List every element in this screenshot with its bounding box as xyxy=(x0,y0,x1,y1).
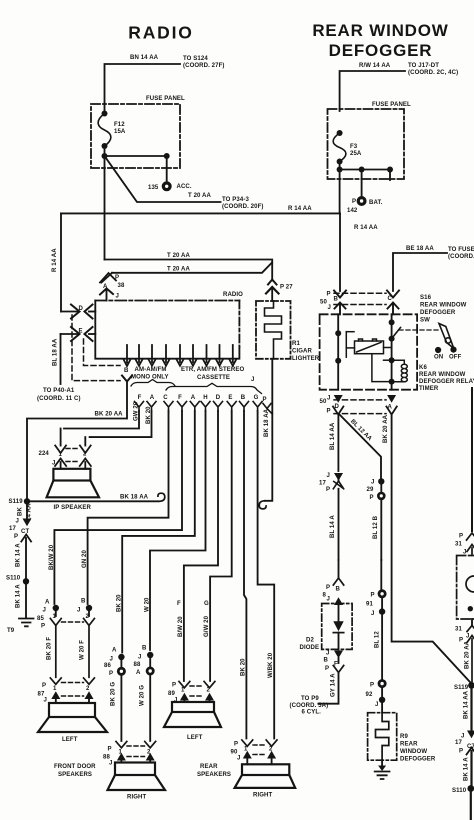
svg-text:J: J xyxy=(43,608,46,614)
svg-text:DEFOGGER RELAY: DEFOGGER RELAY xyxy=(419,379,474,385)
svg-text:J: J xyxy=(327,597,330,603)
svg-text:DEFOGGER: DEFOGGER xyxy=(400,757,436,763)
svg-text:15A: 15A xyxy=(114,129,126,135)
svg-text:OFF: OFF xyxy=(449,355,462,361)
svg-text:FRONT DOOR: FRONT DOOR xyxy=(54,764,96,770)
svg-text:P: P xyxy=(108,747,112,753)
svg-text:REAR WINDOW: REAR WINDOW xyxy=(419,372,466,378)
svg-text:31: 31 xyxy=(455,542,462,548)
svg-text:W 20 G: W 20 G xyxy=(140,685,146,706)
svg-text:17: 17 xyxy=(455,740,462,746)
svg-text:R 14 AA: R 14 AA xyxy=(52,248,58,272)
svg-text:BK 18 AA: BK 18 AA xyxy=(120,495,149,501)
svg-text:(COORD. 11 C): (COORD. 11 C) xyxy=(37,396,81,402)
svg-text:P: P xyxy=(371,593,375,599)
svg-text:DEFOGGER: DEFOGGER xyxy=(329,41,433,60)
svg-text:D: D xyxy=(79,306,84,312)
svg-text:P: P xyxy=(42,683,46,689)
svg-text:BL 14 A: BL 14 A xyxy=(330,515,336,538)
svg-text:31: 31 xyxy=(455,627,462,633)
svg-text:(COORD. 20F): (COORD. 20F) xyxy=(222,204,264,210)
svg-text:ON: ON xyxy=(434,355,443,361)
svg-text:91: 91 xyxy=(366,602,373,608)
svg-text:LEFT: LEFT xyxy=(62,737,78,743)
svg-text:BK 20 AA: BK 20 AA xyxy=(383,414,389,443)
svg-text:J: J xyxy=(77,608,80,614)
svg-text:BK/W 20: BK/W 20 xyxy=(49,544,55,570)
svg-text:BK 18 AA: BK 18 AA xyxy=(264,408,270,437)
svg-text:S119: S119 xyxy=(9,499,24,505)
svg-text:RIGHT: RIGHT xyxy=(127,795,147,801)
svg-text:1: 1 xyxy=(53,686,57,692)
svg-text:J: J xyxy=(327,396,330,402)
svg-text:TO FUSE: TO FUSE xyxy=(448,247,474,253)
svg-text:17: 17 xyxy=(319,481,326,487)
svg-text:REAR: REAR xyxy=(400,742,418,748)
svg-text:A: A xyxy=(112,648,117,654)
svg-text:REAR WINDOW: REAR WINDOW xyxy=(312,21,448,40)
svg-text:J: J xyxy=(16,519,19,525)
svg-text:50: 50 xyxy=(320,399,327,405)
svg-text:GN 20: GN 20 xyxy=(82,549,88,568)
svg-text:E: E xyxy=(228,395,232,401)
svg-text:B: B xyxy=(142,646,147,652)
svg-text:MONO ONLY: MONO ONLY xyxy=(131,375,169,381)
svg-text:P: P xyxy=(459,749,463,755)
svg-text:50: 50 xyxy=(320,300,327,306)
svg-text:B: B xyxy=(124,368,129,374)
svg-text:RADIO: RADIO xyxy=(223,292,243,298)
svg-text:J: J xyxy=(109,761,112,767)
svg-text:D2: D2 xyxy=(306,638,314,644)
svg-text:J: J xyxy=(44,698,47,704)
svg-text:B: B xyxy=(336,587,341,593)
svg-text:TIMER: TIMER xyxy=(419,386,439,392)
svg-text:P: P xyxy=(459,534,463,540)
svg-text:J: J xyxy=(116,294,119,300)
svg-text:GW 20: GW 20 xyxy=(134,401,140,421)
svg-text:(COORD. 2C, 4C): (COORD. 2C, 4C) xyxy=(408,70,458,76)
svg-text:P: P xyxy=(352,199,356,205)
svg-text:B: B xyxy=(334,297,339,303)
svg-text:IP SPEAKER: IP SPEAKER xyxy=(54,505,92,511)
svg-text:P 27: P 27 xyxy=(280,285,293,291)
svg-text:89: 89 xyxy=(168,691,175,697)
svg-text:R1: R1 xyxy=(292,341,300,347)
svg-text:B: B xyxy=(81,599,86,605)
svg-text:W/BK 20: W/BK 20 xyxy=(268,652,274,678)
svg-text:RADIO: RADIO xyxy=(128,23,193,43)
svg-text:P: P xyxy=(234,742,238,748)
svg-text:142: 142 xyxy=(347,208,358,214)
svg-text:J: J xyxy=(326,651,329,657)
svg-text:224: 224 xyxy=(39,451,50,457)
svg-text:6 CYL.: 6 CYL. xyxy=(302,710,322,716)
svg-text:J: J xyxy=(138,655,141,661)
svg-text:H: H xyxy=(203,395,207,401)
svg-text:F: F xyxy=(177,601,181,607)
svg-text:BK 20 G: BK 20 G xyxy=(111,682,117,706)
svg-text:(COORD. 27F): (COORD. 27F) xyxy=(183,63,225,69)
svg-text:G: G xyxy=(204,601,209,607)
svg-text:BL 12: BL 12 xyxy=(375,631,381,648)
svg-text:BK: BK xyxy=(18,507,24,516)
svg-text:17: 17 xyxy=(9,526,16,532)
svg-text:P: P xyxy=(326,487,330,493)
svg-text:P: P xyxy=(327,292,331,298)
svg-text:LIGHTER: LIGHTER xyxy=(292,356,320,362)
svg-text:ACC.: ACC. xyxy=(177,184,192,190)
svg-text:T 20 AA: T 20 AA xyxy=(167,267,191,273)
svg-text:RIGHT: RIGHT xyxy=(253,793,273,799)
svg-text:J: J xyxy=(327,473,330,479)
svg-text:P: P xyxy=(325,666,329,672)
svg-text:R 14 AA: R 14 AA xyxy=(288,206,312,212)
svg-text:P: P xyxy=(459,638,463,644)
svg-text:BK 20: BK 20 xyxy=(241,658,247,676)
svg-text:TO P9: TO P9 xyxy=(301,696,319,702)
svg-text:2: 2 xyxy=(269,747,273,753)
svg-text:SPEAKERS: SPEAKERS xyxy=(58,772,92,778)
svg-text:BL 12 B: BL 12 B xyxy=(373,515,379,539)
svg-text:2: 2 xyxy=(86,686,90,692)
svg-text:P: P xyxy=(327,409,331,415)
svg-text:J: J xyxy=(110,657,113,663)
svg-text:J: J xyxy=(237,756,240,762)
svg-text:DEFOGGER: DEFOGGER xyxy=(420,310,456,316)
svg-text:BK 14 A: BK 14 A xyxy=(16,543,22,567)
svg-text:T 20 AA: T 20 AA xyxy=(188,193,212,199)
svg-text:29: 29 xyxy=(367,487,374,493)
svg-text:BK 20: BK 20 xyxy=(146,406,152,424)
svg-text:T 20 AA: T 20 AA xyxy=(167,253,191,259)
svg-text:ETR, AM/FM STEREO: ETR, AM/FM STEREO xyxy=(181,367,244,373)
svg-text:BK 20: BK 20 xyxy=(117,594,123,612)
svg-text:P: P xyxy=(109,671,113,677)
svg-text:REAR: REAR xyxy=(200,764,218,770)
svg-text:FUSE PANEL: FUSE PANEL xyxy=(372,102,411,108)
svg-text:38: 38 xyxy=(118,283,125,289)
svg-text:TO S124: TO S124 xyxy=(183,56,208,62)
svg-text:BK 20 F: BK 20 F xyxy=(47,637,53,660)
svg-text:A: A xyxy=(150,395,155,401)
svg-text:S110: S110 xyxy=(452,788,467,794)
svg-text:BK 20 AA: BK 20 AA xyxy=(95,412,124,418)
svg-text:85: 85 xyxy=(37,616,44,622)
svg-text:R/W 14 AA: R/W 14 AA xyxy=(359,63,391,69)
svg-text:BAT.: BAT. xyxy=(369,200,383,206)
svg-text:TO P34-3: TO P34-3 xyxy=(222,197,249,203)
svg-text:G: G xyxy=(254,395,259,401)
svg-text:FUSE PANEL: FUSE PANEL xyxy=(146,96,185,102)
svg-text:B: B xyxy=(241,395,246,401)
svg-text:A: A xyxy=(136,670,141,676)
svg-text:AM-AM/FM: AM-AM/FM xyxy=(135,367,167,373)
svg-text:S119: S119 xyxy=(454,685,469,691)
svg-text:CIGAR: CIGAR xyxy=(292,349,313,355)
svg-text:J: J xyxy=(371,611,374,617)
svg-text:P: P xyxy=(326,585,330,591)
svg-text:T9: T9 xyxy=(7,628,15,634)
svg-text:135: 135 xyxy=(148,185,159,191)
svg-text:W 20 F: W 20 F xyxy=(80,640,86,660)
svg-text:BK 14 AA: BK 14 AA xyxy=(464,690,470,719)
svg-text:A: A xyxy=(191,395,196,401)
svg-text:J: J xyxy=(371,480,374,486)
svg-text:J: J xyxy=(461,734,464,740)
svg-text:TO J17-DT: TO J17-DT xyxy=(408,63,439,69)
svg-text:88: 88 xyxy=(134,662,141,668)
svg-text:LEFT: LEFT xyxy=(187,735,203,741)
svg-text:P: P xyxy=(14,534,18,540)
svg-text:B: B xyxy=(324,658,329,664)
svg-text:S16: S16 xyxy=(420,295,432,301)
svg-text:DIODE: DIODE xyxy=(300,645,320,651)
svg-text:GY 14 A: GY 14 A xyxy=(331,673,337,697)
svg-text:J: J xyxy=(375,702,378,708)
svg-text:92: 92 xyxy=(366,692,373,698)
svg-text:F: F xyxy=(138,395,142,401)
svg-text:(COORD. 5A): (COORD. 5A) xyxy=(290,703,329,709)
svg-text:WINDOW: WINDOW xyxy=(400,749,427,755)
svg-text:BK 14 A: BK 14 A xyxy=(464,757,470,781)
svg-text:R 14 AA: R 14 AA xyxy=(354,225,378,231)
svg-text:1: 1 xyxy=(181,688,185,694)
svg-text:S110: S110 xyxy=(6,576,21,582)
svg-text:P: P xyxy=(41,624,45,630)
svg-text:A: A xyxy=(45,600,50,606)
svg-text:SW: SW xyxy=(420,318,430,324)
svg-text:25A: 25A xyxy=(350,151,362,157)
svg-text:W 20: W 20 xyxy=(145,597,151,612)
svg-text:F3: F3 xyxy=(350,144,358,150)
svg-text:F: F xyxy=(178,395,182,401)
svg-text:G/W 20: G/W 20 xyxy=(204,615,210,637)
svg-text:P: P xyxy=(115,275,119,281)
svg-text:B/W 20: B/W 20 xyxy=(178,616,184,637)
svg-text:D: D xyxy=(216,395,221,401)
svg-text:BL 14 AA: BL 14 AA xyxy=(330,422,336,450)
svg-text:REAR WINDOW: REAR WINDOW xyxy=(420,303,467,309)
svg-text:C: C xyxy=(163,395,168,401)
svg-text:SPEAKERS: SPEAKERS xyxy=(197,772,231,778)
svg-text:BE 18 AA: BE 18 AA xyxy=(406,246,434,252)
svg-text:BK 20 AA: BK 20 AA xyxy=(465,640,471,669)
svg-text:E: E xyxy=(79,329,83,335)
svg-text:86: 86 xyxy=(104,663,111,669)
svg-text:CT: CT xyxy=(21,529,29,535)
svg-text:R9: R9 xyxy=(400,734,408,740)
svg-text:F12: F12 xyxy=(114,122,125,128)
svg-text:P: P xyxy=(370,495,374,501)
svg-text:BK 14 A: BK 14 A xyxy=(16,584,22,608)
svg-text:K6: K6 xyxy=(419,365,427,371)
svg-text:P: P xyxy=(172,683,176,689)
svg-text:J: J xyxy=(328,305,331,311)
svg-text:TO P40-A1: TO P40-A1 xyxy=(43,388,75,394)
svg-text:(COORD.: (COORD. xyxy=(448,254,474,260)
svg-text:P: P xyxy=(263,397,267,403)
svg-text:P: P xyxy=(370,683,374,689)
svg-text:2: 2 xyxy=(207,688,211,694)
svg-text:J: J xyxy=(251,377,254,383)
svg-text:BL 18 AA: BL 18 AA xyxy=(53,338,59,366)
svg-text:CASSETTE: CASSETTE xyxy=(197,375,230,381)
svg-text:J: J xyxy=(463,550,466,556)
svg-text:BN 14 AA: BN 14 AA xyxy=(130,55,159,61)
